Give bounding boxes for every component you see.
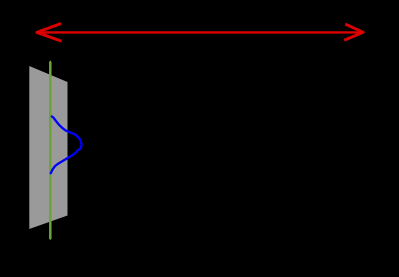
green string bottom taper tip <box>49 238 52 240</box>
red double-headed arrow shaft <box>38 31 364 33</box>
gray plane (membrane slab) <box>29 66 67 229</box>
red arrowhead left <box>37 24 60 41</box>
green string top taper tip <box>49 60 52 62</box>
red arrowhead right <box>346 25 364 40</box>
green string (vertical line through plane) <box>49 62 52 239</box>
blue wave pulse <box>51 117 82 174</box>
